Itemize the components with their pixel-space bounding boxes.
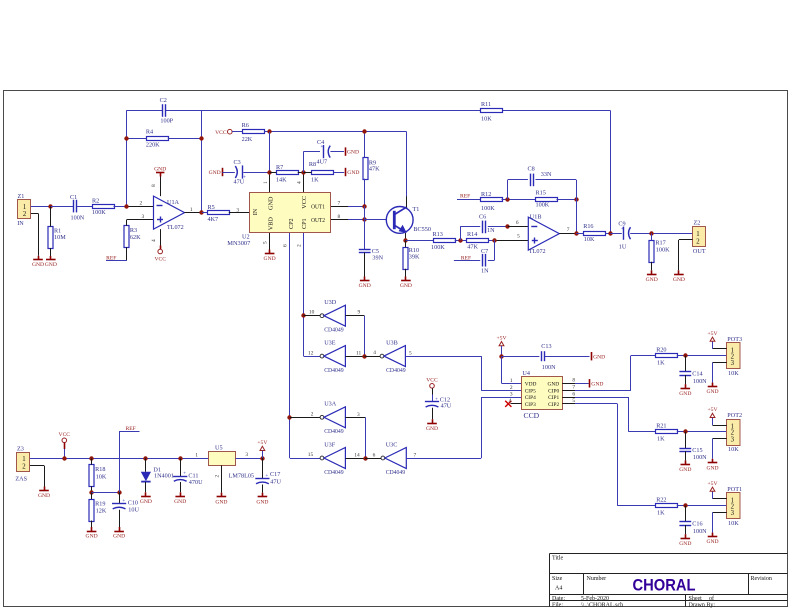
svg-text:Z3: Z3 xyxy=(17,445,24,452)
U2 pin name CP1 xyxy=(301,218,308,229)
junction inv1 out xyxy=(362,354,366,358)
ground C11 xyxy=(174,497,186,505)
svg-text:4: 4 xyxy=(373,350,376,356)
svg-text:POT2: POT2 xyxy=(727,412,742,419)
wire POT1 pin3 gnd xyxy=(713,512,727,536)
svg-text:CD4049: CD4049 xyxy=(324,469,344,476)
resistor R22 xyxy=(656,496,678,516)
wire Z1 pin1 xyxy=(31,206,51,208)
junction VCC supply xyxy=(62,456,66,460)
svg-text:CCD: CCD xyxy=(524,411,540,420)
svg-text:+: + xyxy=(183,472,186,477)
capacitor C17 xyxy=(255,458,281,497)
svg-text:4: 4 xyxy=(509,398,512,404)
U5 pin3 number xyxy=(245,452,248,458)
wire R22 out xyxy=(677,505,727,507)
inverter U3D xyxy=(320,299,345,333)
svg-text:100P: 100P xyxy=(160,118,173,125)
U2 pin6 CP2 rail xyxy=(283,233,321,459)
wire U3E pin11 xyxy=(345,350,364,356)
svg-text:GND: GND xyxy=(359,283,371,289)
svg-text:A4: A4 xyxy=(555,586,562,592)
inverter U3F xyxy=(320,441,345,475)
svg-text:MN3007: MN3007 xyxy=(227,240,250,247)
svg-text:C6: C6 xyxy=(479,213,486,220)
wire R14 out xyxy=(488,240,528,242)
wire C9 out xyxy=(630,233,692,235)
svg-text:C16: C16 xyxy=(692,521,702,528)
svg-text:R22: R22 xyxy=(656,496,666,503)
U2 pin8 OUT2 xyxy=(331,214,365,220)
connector Z2 xyxy=(693,219,706,255)
junction D1 top xyxy=(143,456,147,460)
svg-text:7: 7 xyxy=(338,200,341,206)
svg-text:U3F: U3F xyxy=(324,441,336,448)
U4 part CCD xyxy=(524,411,540,420)
svg-text:15: 15 xyxy=(308,452,314,458)
svg-text:100N: 100N xyxy=(542,364,556,371)
U2 pin name OUT1 xyxy=(311,203,325,210)
svg-text:2: 2 xyxy=(696,238,700,245)
resistor R15 xyxy=(536,190,558,209)
U5 pin1 number xyxy=(195,452,198,458)
svg-text:GND: GND xyxy=(426,426,438,432)
wire POT1 pin1 5V xyxy=(713,491,727,499)
svg-text:100N: 100N xyxy=(693,528,707,535)
wire Z1 pin2 to gnd xyxy=(31,213,39,259)
svg-text:22K: 22K xyxy=(242,136,253,143)
ground port C4 right xyxy=(346,147,360,155)
junction R18 top xyxy=(89,456,93,460)
resistor R7 xyxy=(270,164,304,184)
junction R4 left xyxy=(124,136,128,140)
svg-text:CIP3: CIP3 xyxy=(525,402,536,408)
svg-text:R5: R5 xyxy=(208,204,215,211)
svg-text:Z2: Z2 xyxy=(694,219,701,226)
svg-text:Z1: Z1 xyxy=(18,193,25,200)
U4 pin names left xyxy=(525,381,537,408)
svg-text:CP1: CP1 xyxy=(301,218,308,229)
resistor R3 xyxy=(124,220,141,261)
junction C10 top xyxy=(117,490,121,494)
svg-text:3: 3 xyxy=(357,412,360,418)
svg-text:Number: Number xyxy=(587,576,607,582)
svg-text:R21: R21 xyxy=(656,423,666,430)
wire U3D pin10 xyxy=(304,310,321,316)
svg-text:4: 4 xyxy=(297,181,303,184)
U4 pin3 xyxy=(510,392,513,398)
wire R16 out xyxy=(605,233,610,235)
svg-text:9: 9 xyxy=(358,309,361,315)
svg-text:GND: GND xyxy=(548,381,560,387)
U2 pin4 top xyxy=(297,172,304,192)
svg-text:4K7: 4K7 xyxy=(208,216,219,223)
junction inv2 out xyxy=(363,456,367,460)
resistor R18 xyxy=(89,458,107,492)
wire U3A pin3 xyxy=(345,412,365,458)
svg-text:+: + xyxy=(122,499,125,504)
svg-text:1: 1 xyxy=(195,452,198,458)
junction R4 right xyxy=(199,136,203,140)
svg-text:Size: Size xyxy=(552,576,563,582)
svg-text:100K: 100K xyxy=(656,247,670,254)
svg-text:8: 8 xyxy=(572,378,575,384)
svg-text:3: 3 xyxy=(245,452,248,458)
svg-text:+5V: +5V xyxy=(257,440,267,446)
ground C14 xyxy=(679,389,691,397)
svg-text:U3B: U3B xyxy=(386,340,398,347)
resistor R9 xyxy=(363,132,380,206)
svg-text:CIP4: CIP4 xyxy=(525,395,536,401)
resistor R4 xyxy=(146,128,169,148)
svg-text:GND: GND xyxy=(140,499,152,505)
svg-text:GND: GND xyxy=(706,465,718,471)
svg-text:11: 11 xyxy=(356,350,361,356)
svg-text:C1: C1 xyxy=(70,194,77,201)
power port VCC U1A pin4 xyxy=(154,229,166,263)
svg-text:IN: IN xyxy=(252,208,259,215)
inverter U3E xyxy=(320,340,345,374)
svg-text:+5V: +5V xyxy=(708,407,718,413)
capacitor C16 xyxy=(679,506,707,539)
svg-text:10K: 10K xyxy=(728,446,739,453)
junction R6 out xyxy=(267,129,271,133)
svg-text:REF: REF xyxy=(106,255,116,261)
svg-text:R4: R4 xyxy=(146,128,153,135)
pin5 number U1B xyxy=(517,234,520,240)
svg-text:1: 1 xyxy=(23,204,26,211)
junction R15 out xyxy=(574,197,578,201)
svg-text:10U: 10U xyxy=(128,507,139,514)
resistor R6 xyxy=(232,122,265,143)
svg-text:1N: 1N xyxy=(487,227,495,234)
net label REF R12 xyxy=(457,194,480,200)
svg-text:C14: C14 xyxy=(692,371,702,378)
svg-text:C15: C15 xyxy=(692,447,702,454)
svg-text:VCC: VCC xyxy=(154,257,166,263)
capacitor C7 xyxy=(454,240,495,274)
ground C16 xyxy=(679,539,691,547)
svg-text:7: 7 xyxy=(572,385,575,391)
svg-text:10M: 10M xyxy=(54,234,66,241)
svg-text:GND: GND xyxy=(400,283,412,289)
U2 pin5 gnd xyxy=(262,233,269,254)
svg-text:Revision: Revision xyxy=(751,576,772,582)
resistor R10 xyxy=(403,240,420,280)
U2 pin name OUT2 xyxy=(311,217,325,224)
svg-text:39N: 39N xyxy=(372,255,383,262)
connector POT2 xyxy=(727,412,743,453)
svg-text:100K: 100K xyxy=(481,205,495,212)
U2 pin7 OUT1 xyxy=(331,200,365,206)
U4 pin8 gnd xyxy=(562,378,589,384)
svg-text:39K: 39K xyxy=(409,254,420,261)
svg-text:\\..\CHORAL.sch: \\..\CHORAL.sch xyxy=(581,602,623,608)
power port +5V supply xyxy=(257,440,267,458)
svg-text:6: 6 xyxy=(572,391,575,397)
capacitor C11 xyxy=(173,458,203,496)
wire opamp plus xyxy=(127,219,154,221)
connector POT1 xyxy=(727,486,743,527)
U5 designator xyxy=(215,445,223,452)
power port VCC R6 xyxy=(215,129,232,136)
svg-text:POT3: POT3 xyxy=(727,336,742,343)
svg-text:5-Feb-2020: 5-Feb-2020 xyxy=(581,596,609,602)
logo CHORAL xyxy=(633,576,696,594)
svg-text:ZAS: ZAS xyxy=(15,475,27,482)
svg-text:1: 1 xyxy=(696,231,699,238)
wire R21 out xyxy=(677,431,727,433)
U2 part MN3007 xyxy=(227,240,250,247)
resistor R11 xyxy=(481,101,503,123)
capacitor C9 xyxy=(610,220,630,250)
svg-text:5: 5 xyxy=(409,350,412,356)
svg-text:10K: 10K xyxy=(728,370,739,377)
wire U3D pin9 xyxy=(345,309,364,356)
capacitor C1 xyxy=(70,194,85,221)
ground R17 xyxy=(646,275,658,283)
junction R22 out xyxy=(683,503,687,507)
U5 pin2 gnd xyxy=(214,465,221,496)
wire C3 out xyxy=(243,172,269,174)
svg-text:VCC: VCC xyxy=(59,432,71,438)
svg-text:GND: GND xyxy=(706,389,718,395)
wire U1A output xyxy=(185,212,202,214)
ground C10 xyxy=(113,532,125,540)
junction C3 node xyxy=(267,170,271,174)
svg-text:GND: GND xyxy=(86,534,98,540)
ground port U1A pin8 xyxy=(154,166,166,196)
svg-text:GND: GND xyxy=(32,262,44,268)
U4 pin6 wire xyxy=(562,391,655,431)
svg-text:OUT: OUT xyxy=(693,248,706,255)
svg-text:C2: C2 xyxy=(160,97,167,104)
svg-text:GND: GND xyxy=(174,499,186,505)
ground port R8 right xyxy=(346,168,360,176)
connector Z3 xyxy=(15,445,29,482)
capacitor C14 xyxy=(679,356,707,389)
svg-text:+: + xyxy=(266,474,269,479)
net label REF left xyxy=(106,255,127,261)
wire U5 pin3 xyxy=(236,458,263,460)
junction R14 out xyxy=(492,238,496,242)
svg-text:R14: R14 xyxy=(467,231,477,238)
wire fb down xyxy=(576,199,578,233)
svg-text:47K: 47K xyxy=(369,165,380,172)
resistor R17 xyxy=(649,233,670,274)
svg-text:2: 2 xyxy=(23,211,27,218)
resistor R20 xyxy=(656,346,678,366)
resistor R1 xyxy=(48,206,66,259)
svg-text:3: 3 xyxy=(731,360,735,367)
svg-text:GND: GND xyxy=(347,150,359,156)
svg-text:R7: R7 xyxy=(276,164,283,171)
junction R21 out xyxy=(683,429,687,433)
ground C15 xyxy=(679,465,691,474)
wire U1B pin6 xyxy=(508,220,529,227)
ground D1 xyxy=(140,497,152,505)
resistor R2 xyxy=(92,198,115,217)
wire emitter row xyxy=(406,240,433,242)
svg-text:8: 8 xyxy=(151,184,157,187)
svg-text:2: 2 xyxy=(311,411,314,417)
capacitor C5 xyxy=(359,248,384,281)
resistor R21 xyxy=(656,423,678,443)
svg-text:R8: R8 xyxy=(309,161,316,168)
wire ref row xyxy=(92,492,120,494)
svg-text:VDD: VDD xyxy=(525,381,537,387)
wire U3B pin5 out xyxy=(405,350,521,390)
wire U3B pin4 xyxy=(364,350,380,356)
ground port C13 right xyxy=(592,352,606,360)
pin8 number U1A xyxy=(151,184,157,187)
svg-text:CD4049: CD4049 xyxy=(324,327,344,334)
svg-text:OUT1: OUT1 xyxy=(311,203,325,210)
U4 pin names right xyxy=(548,381,560,408)
svg-text:GND: GND xyxy=(706,539,718,545)
U4 pin1 xyxy=(510,378,513,384)
svg-text:U3E: U3E xyxy=(324,340,336,347)
svg-text:10K: 10K xyxy=(481,115,492,122)
svg-text:GND: GND xyxy=(209,170,221,176)
U2 pin name GND xyxy=(268,196,275,210)
svg-text:+: + xyxy=(435,397,438,402)
wire top net y=110.5 xyxy=(126,111,610,234)
svg-text:U5: U5 xyxy=(215,445,223,452)
wire R13 out xyxy=(455,240,467,242)
svg-text:1N: 1N xyxy=(481,267,489,274)
svg-text:R20: R20 xyxy=(656,346,666,353)
svg-text:1K: 1K xyxy=(657,509,665,516)
IC U5 body xyxy=(209,452,236,466)
resistor R13 xyxy=(431,231,456,251)
junction U5 out xyxy=(260,456,264,460)
wire VCC rail xyxy=(264,132,407,197)
svg-text:12K: 12K xyxy=(96,507,107,514)
power port +5V POT2 xyxy=(708,407,718,417)
svg-text:12: 12 xyxy=(308,350,314,356)
svg-text:IN: IN xyxy=(17,220,24,227)
resistor R19 xyxy=(89,492,107,531)
svg-text:10K: 10K xyxy=(584,236,595,243)
junction R13 out xyxy=(458,238,462,242)
svg-text:GND: GND xyxy=(154,166,166,172)
ground POT1 pin3 xyxy=(706,537,718,546)
svg-text:1K: 1K xyxy=(657,359,665,366)
ground port U4 pin8 xyxy=(590,379,604,387)
svg-text:6: 6 xyxy=(516,220,519,226)
svg-text:U1A: U1A xyxy=(167,199,180,206)
wire POT3 pin3 gnd xyxy=(713,362,727,386)
svg-text:1: 1 xyxy=(22,456,25,463)
svg-text:1K: 1K xyxy=(657,436,665,443)
resistor R8 xyxy=(303,161,344,183)
svg-text:47K: 47K xyxy=(467,244,478,251)
svg-text:5: 5 xyxy=(572,398,575,404)
ground port C3 left xyxy=(209,168,223,176)
svg-text:CIP1: CIP1 xyxy=(548,395,559,401)
inverter U3A xyxy=(320,401,345,435)
capacitor C15 xyxy=(679,432,707,465)
pin2 number U1A xyxy=(140,201,143,207)
inverter U3C xyxy=(381,441,406,475)
svg-text:OUT2: OUT2 xyxy=(311,217,325,224)
svg-text:3: 3 xyxy=(142,214,145,220)
connector POT3 xyxy=(727,336,743,377)
svg-text:U3D: U3D xyxy=(324,299,337,306)
ground U5 pin2 xyxy=(215,497,227,506)
wire Z2 pin2 gnd xyxy=(679,240,693,275)
svg-text:C7: C7 xyxy=(481,248,488,255)
ground U2 pin5 xyxy=(264,254,276,263)
junction R7 out xyxy=(301,170,305,174)
junction R20 out xyxy=(683,353,687,357)
svg-text:7: 7 xyxy=(414,452,417,458)
power port VCC supply xyxy=(59,432,71,458)
op-amp U1A xyxy=(154,196,185,231)
svg-text:REF: REF xyxy=(126,426,136,432)
capacitor C2 xyxy=(160,97,174,125)
ground C5 xyxy=(359,281,371,290)
U2 pin1 top xyxy=(263,172,270,192)
svg-text:R13: R13 xyxy=(433,231,443,238)
svg-text:GND: GND xyxy=(673,277,685,283)
svg-text:GND: GND xyxy=(593,354,605,360)
svg-text:BC550: BC550 xyxy=(413,226,431,233)
svg-text:5: 5 xyxy=(517,234,520,240)
svg-text:100K: 100K xyxy=(536,202,550,209)
power port VCC C12 xyxy=(426,378,438,389)
junction U1A output xyxy=(199,210,203,214)
svg-text:CD4049: CD4049 xyxy=(386,469,406,476)
svg-text:10: 10 xyxy=(309,310,315,316)
pin7 number U1B xyxy=(567,227,570,233)
resistor R16 xyxy=(576,223,605,243)
svg-text:4: 4 xyxy=(151,239,157,242)
capacitor C3 xyxy=(222,159,246,185)
junction C11 top xyxy=(178,456,182,460)
svg-text:100N: 100N xyxy=(693,454,707,461)
svg-text:GND: GND xyxy=(38,493,50,499)
wire U3F pin14 xyxy=(345,452,365,458)
junction OUT2 node xyxy=(362,217,366,221)
junction input node xyxy=(124,204,128,208)
svg-text:+5V: +5V xyxy=(708,331,718,337)
ground Z3 pin2 xyxy=(38,491,50,500)
svg-text:REF: REF xyxy=(460,194,470,200)
svg-text:CHORAL: CHORAL xyxy=(633,576,696,594)
svg-text:CIP5: CIP5 xyxy=(525,388,536,394)
power port +5V C13 xyxy=(497,335,507,356)
wire U3C pin7 out xyxy=(406,397,521,459)
wire R20 out xyxy=(677,355,727,357)
junction CP1 pin10 xyxy=(301,313,305,317)
connector Z1 xyxy=(17,193,30,227)
svg-text:GND: GND xyxy=(215,499,227,505)
U4 pin7 wire xyxy=(562,356,655,391)
wire out rows xyxy=(364,206,366,250)
svg-text:C10: C10 xyxy=(128,500,138,507)
junction C6 out xyxy=(505,224,509,228)
wire U3E pin12 xyxy=(308,350,314,356)
wire POT3 pin1 5V xyxy=(713,341,727,349)
svg-text:6: 6 xyxy=(283,244,289,247)
svg-text:1: 1 xyxy=(510,378,513,384)
svg-text:REF: REF xyxy=(461,255,471,261)
svg-text:+: + xyxy=(621,227,624,232)
svg-text:R11: R11 xyxy=(481,101,491,108)
IC U2 MN3007 body xyxy=(250,193,331,233)
